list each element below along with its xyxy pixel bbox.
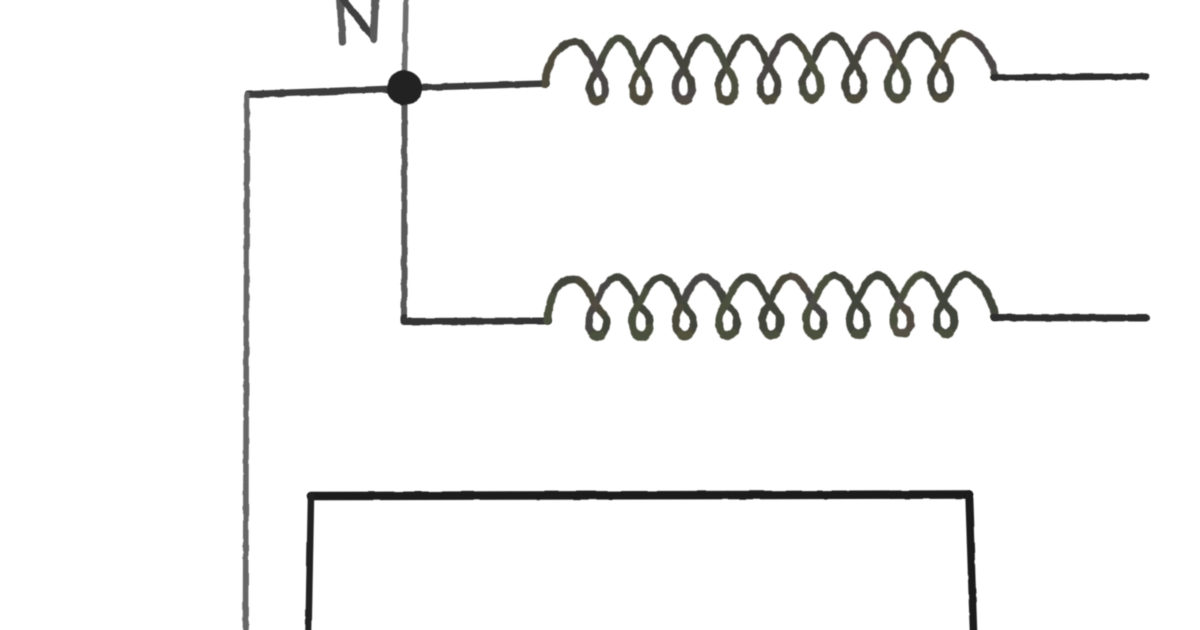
box load left edge <box>309 496 312 630</box>
inductor coil L1 <box>544 32 995 105</box>
inductor coil L2 <box>547 274 996 339</box>
wire bus corner to coil L2 <box>404 318 548 322</box>
wire neutral bus vertical lower <box>401 100 408 319</box>
wire junction to left corner <box>248 89 405 95</box>
wire coil L2 to right edge <box>994 314 1146 322</box>
wire neutral bus vertical top <box>405 0 407 72</box>
wire left return vertical <box>246 95 248 630</box>
wire coil L1 to right edge <box>994 77 1146 78</box>
wire junction to coil L1 <box>405 84 546 89</box>
node junction dot <box>387 71 422 106</box>
label N <box>340 0 376 42</box>
box load top edge <box>311 495 969 497</box>
box load right edge <box>969 495 974 630</box>
